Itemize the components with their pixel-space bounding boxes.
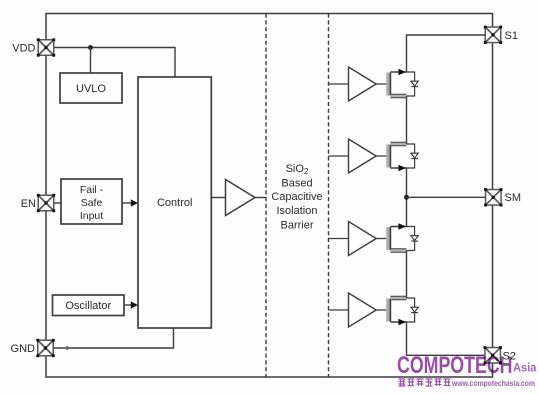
diode D3 body diode xyxy=(411,236,418,241)
svg-text:Fail -: Fail - xyxy=(80,184,104,196)
wire Q3 source to Q4 drain xyxy=(406,251,408,299)
wire Q1 drain to S1 xyxy=(407,35,487,72)
svg-text:EN: EN xyxy=(21,198,36,210)
wire SM node to SM pin xyxy=(407,196,487,198)
wire barrier to buffer D xyxy=(329,309,349,311)
svg-text:Capacitive: Capacitive xyxy=(271,191,322,203)
wire EN to Fail-Safe xyxy=(54,202,61,204)
wire buffer A to Q1 gate xyxy=(376,83,386,85)
pin GND xyxy=(36,339,54,357)
svg-text:SiO2: SiO2 xyxy=(286,163,309,176)
pin VDD xyxy=(37,38,55,56)
pin S2 xyxy=(484,346,502,364)
svg-text:Based: Based xyxy=(281,177,312,189)
transistor Q1 xyxy=(386,69,414,98)
block Fail-Safe Input xyxy=(61,179,122,224)
diode D2 body diode xyxy=(411,153,418,158)
svg-text:S1: S1 xyxy=(505,30,518,42)
wire GND to Control bottom xyxy=(53,328,173,350)
svg-text:UVLO: UVLO xyxy=(76,83,106,95)
diode D1 body diode xyxy=(411,81,418,86)
wire buffer C to Q3 gate xyxy=(376,238,386,240)
transistor Q3 xyxy=(386,223,414,252)
op-amp gate buffer A xyxy=(349,67,377,101)
svg-text:Safe: Safe xyxy=(81,197,103,209)
svg-text:Barrier: Barrier xyxy=(280,219,313,231)
block Oscillator xyxy=(53,295,125,316)
node SM junction dot xyxy=(404,195,409,200)
wire junction to UVLO xyxy=(90,48,92,74)
svg-text:Isolation: Isolation xyxy=(277,205,318,217)
transistor Q2 xyxy=(386,142,414,171)
node VDD junction dot xyxy=(88,45,93,50)
op-amp gate buffer D xyxy=(349,293,377,327)
block Control xyxy=(138,77,211,328)
wire Control to driver buffer xyxy=(211,197,225,199)
svg-text:Oscillator: Oscillator xyxy=(65,300,111,312)
wire Oscillator to Control with arrow xyxy=(124,301,138,308)
IC outline box xyxy=(46,14,493,378)
svg-text:Control: Control xyxy=(157,197,192,209)
wire barrier to buffer B xyxy=(329,155,349,157)
diode D4 body diode xyxy=(411,307,418,312)
svg-text:Asia: Asia xyxy=(513,363,537,375)
pin SM xyxy=(484,188,502,206)
svg-text:COMPOTECH: COMPOTECH xyxy=(397,352,513,379)
wire buffer D to Q4 gate xyxy=(376,309,386,311)
wire buffer B to Q2 gate xyxy=(376,155,386,157)
isolation barrier dashed line right xyxy=(328,14,330,378)
op-amp gate buffer C xyxy=(349,222,377,256)
transistor Q4 xyxy=(386,296,414,325)
wire barrier to buffer A xyxy=(329,83,349,85)
wire Q1 source to Q2 drain xyxy=(406,96,408,144)
svg-text:www.compotechasia.com: www.compotechasia.com xyxy=(451,378,535,388)
svg-text:VDD: VDD xyxy=(12,42,35,54)
isolation barrier dashed line left xyxy=(265,14,267,378)
pin EN xyxy=(37,194,55,212)
wire VDD to Control top xyxy=(54,48,175,78)
pin S1 xyxy=(484,26,502,44)
svg-text:GND: GND xyxy=(11,343,36,355)
watermark logo chinese tagline glyphs xyxy=(399,379,451,386)
wire buffer to barrier xyxy=(255,197,267,199)
wire Q4 source to S2 xyxy=(407,322,487,355)
wire Q2 source to SM node xyxy=(406,168,408,227)
svg-text:Input: Input xyxy=(80,210,103,222)
svg-text:SM: SM xyxy=(505,192,522,204)
wire Fail-Safe to Control with arrow xyxy=(122,199,138,206)
op-amp gate buffer B xyxy=(349,139,377,173)
op-amp driver buffer U1 xyxy=(226,180,256,216)
wire barrier to buffer C xyxy=(329,238,349,240)
block UVLO xyxy=(60,73,122,103)
